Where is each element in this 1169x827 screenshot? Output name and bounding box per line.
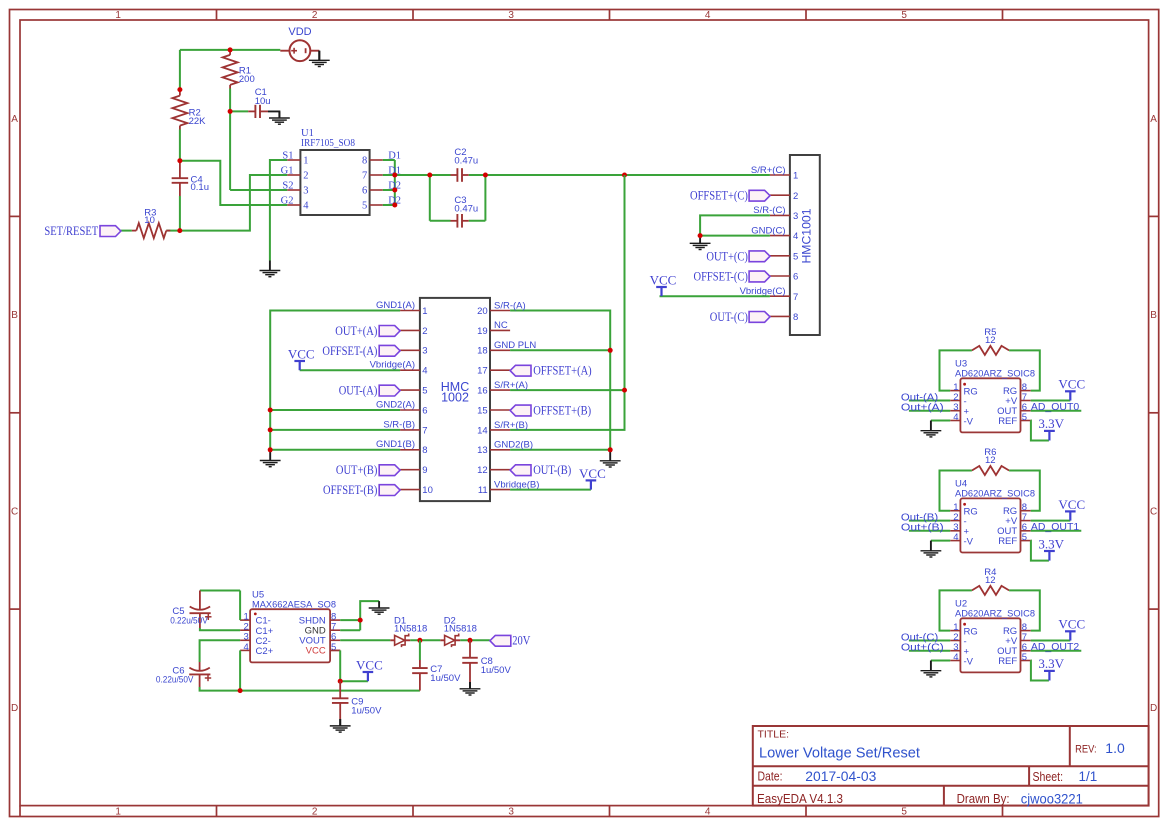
svg-text:12: 12 bbox=[985, 455, 996, 466]
svg-text:10u: 10u bbox=[255, 96, 271, 107]
svg-text:VCC: VCC bbox=[306, 646, 326, 657]
svg-text:VCC: VCC bbox=[288, 346, 315, 361]
svg-text:4: 4 bbox=[953, 532, 958, 543]
svg-text:2: 2 bbox=[312, 10, 318, 21]
svg-text:6: 6 bbox=[793, 272, 798, 283]
svg-text:OFFSET+(C): OFFSET+(C) bbox=[690, 189, 748, 203]
svg-text:4: 4 bbox=[953, 652, 958, 663]
svg-text:AD_OUT1: AD_OUT1 bbox=[1031, 521, 1079, 533]
svg-text:OFFSET+(A): OFFSET+(A) bbox=[533, 364, 592, 378]
svg-text:3.3V: 3.3V bbox=[1038, 536, 1064, 551]
svg-text:7: 7 bbox=[362, 171, 367, 182]
svg-text:S/R-(A): S/R-(A) bbox=[494, 300, 526, 311]
svg-text:4: 4 bbox=[422, 366, 427, 377]
svg-text:9: 9 bbox=[422, 465, 427, 476]
svg-text:3.3V: 3.3V bbox=[1038, 416, 1064, 431]
svg-text:6: 6 bbox=[422, 405, 427, 416]
svg-text:1: 1 bbox=[303, 156, 308, 167]
svg-text:12: 12 bbox=[985, 335, 996, 346]
svg-text:3: 3 bbox=[508, 10, 514, 21]
svg-text:19: 19 bbox=[477, 326, 488, 337]
svg-text:20V: 20V bbox=[512, 634, 530, 648]
svg-text:3: 3 bbox=[303, 186, 308, 197]
svg-text:Lower Voltage Set/Reset: Lower Voltage Set/Reset bbox=[759, 744, 921, 761]
svg-text:1u/50V: 1u/50V bbox=[351, 705, 382, 716]
svg-text:AD620ARZ_SOIC8: AD620ARZ_SOIC8 bbox=[955, 489, 1035, 500]
svg-text:OFFSET-(A): OFFSET-(A) bbox=[322, 344, 377, 358]
svg-text:cjwoo3221: cjwoo3221 bbox=[1021, 791, 1083, 806]
svg-text:OUT+(A): OUT+(A) bbox=[335, 324, 377, 338]
svg-text:8: 8 bbox=[362, 156, 367, 167]
svg-text:5: 5 bbox=[793, 251, 798, 262]
svg-text:1: 1 bbox=[793, 171, 798, 182]
svg-text:U1: U1 bbox=[301, 128, 314, 139]
svg-text:Drawn By:: Drawn By: bbox=[957, 792, 1010, 806]
svg-text:1N5818: 1N5818 bbox=[444, 624, 477, 635]
svg-text:4: 4 bbox=[303, 201, 309, 212]
svg-text:Vbridge(A): Vbridge(A) bbox=[370, 360, 415, 371]
svg-text:11: 11 bbox=[478, 485, 488, 496]
svg-text:C: C bbox=[1150, 507, 1157, 518]
svg-text:16: 16 bbox=[477, 386, 488, 397]
svg-text:D1: D1 bbox=[388, 150, 401, 161]
svg-text:AD_OUT0: AD_OUT0 bbox=[1031, 401, 1079, 413]
svg-text:2: 2 bbox=[312, 807, 318, 818]
svg-text:6: 6 bbox=[362, 186, 367, 197]
svg-text:OUT-(C): OUT-(C) bbox=[710, 310, 748, 324]
svg-text:GND2(A): GND2(A) bbox=[376, 399, 415, 410]
svg-text:IRF7105_SO8: IRF7105_SO8 bbox=[301, 138, 355, 149]
svg-text:0.47u: 0.47u bbox=[454, 204, 478, 215]
svg-text:OUT+(C): OUT+(C) bbox=[706, 249, 748, 263]
svg-text:1: 1 bbox=[115, 807, 121, 818]
svg-text:AD620ARZ_SOIC8: AD620ARZ_SOIC8 bbox=[955, 368, 1035, 379]
svg-text:1/1: 1/1 bbox=[1079, 769, 1098, 784]
svg-text:1: 1 bbox=[422, 306, 427, 317]
svg-text:7: 7 bbox=[422, 425, 427, 436]
svg-text:17: 17 bbox=[477, 366, 488, 377]
svg-text:OUT-(A): OUT-(A) bbox=[339, 384, 378, 398]
svg-text:AD_OUT2: AD_OUT2 bbox=[1031, 641, 1079, 653]
svg-text:-V: -V bbox=[964, 416, 974, 427]
svg-text:1N5818: 1N5818 bbox=[394, 624, 427, 635]
svg-text:4: 4 bbox=[705, 807, 711, 818]
svg-text:GND1(B): GND1(B) bbox=[376, 439, 415, 450]
svg-text:15: 15 bbox=[477, 405, 488, 416]
svg-text:OFFSET-(C): OFFSET-(C) bbox=[694, 270, 748, 284]
svg-text:HMC1001: HMC1001 bbox=[799, 208, 813, 263]
svg-text:1: 1 bbox=[115, 10, 121, 21]
svg-text:3: 3 bbox=[422, 346, 427, 357]
svg-text:B: B bbox=[11, 310, 18, 321]
svg-text:22K: 22K bbox=[189, 116, 207, 127]
svg-text:2017-04-03: 2017-04-03 bbox=[805, 769, 876, 784]
svg-text:3.3V: 3.3V bbox=[1038, 656, 1064, 671]
svg-text:5: 5 bbox=[1022, 532, 1027, 543]
svg-text:S/R+(C): S/R+(C) bbox=[751, 165, 786, 176]
svg-text:2: 2 bbox=[422, 326, 427, 337]
svg-text:Out+(C): Out+(C) bbox=[901, 642, 944, 654]
svg-text:0.22u/50V: 0.22u/50V bbox=[170, 615, 208, 626]
svg-text:-V: -V bbox=[964, 536, 974, 547]
svg-text:10: 10 bbox=[422, 485, 433, 496]
svg-text:VDD: VDD bbox=[288, 26, 311, 38]
svg-text:D: D bbox=[11, 703, 18, 714]
svg-text:4: 4 bbox=[705, 10, 711, 21]
svg-text:Out+(B): Out+(B) bbox=[901, 522, 944, 534]
svg-text:S/R+(A): S/R+(A) bbox=[494, 380, 528, 391]
svg-text:REF: REF bbox=[998, 416, 1017, 427]
svg-text:1u/50V: 1u/50V bbox=[430, 673, 461, 684]
svg-text:REF: REF bbox=[998, 536, 1017, 547]
svg-text:12: 12 bbox=[477, 465, 488, 476]
svg-text:VCC: VCC bbox=[1058, 497, 1085, 512]
svg-text:A: A bbox=[11, 114, 18, 125]
svg-text:20: 20 bbox=[477, 306, 488, 317]
svg-text:GND1(A): GND1(A) bbox=[376, 300, 415, 311]
svg-text:C: C bbox=[11, 507, 18, 518]
svg-text:2: 2 bbox=[793, 191, 798, 202]
svg-text:REF: REF bbox=[998, 656, 1017, 667]
svg-text:SET/RESET: SET/RESET bbox=[44, 224, 98, 238]
svg-text:B: B bbox=[1150, 310, 1157, 321]
svg-text:NC: NC bbox=[494, 320, 508, 331]
svg-text:VCC: VCC bbox=[1058, 617, 1085, 632]
svg-text:18: 18 bbox=[477, 346, 488, 357]
svg-text:A: A bbox=[1150, 114, 1157, 125]
svg-text:8: 8 bbox=[793, 312, 798, 323]
svg-text:7: 7 bbox=[793, 292, 798, 303]
svg-text:4: 4 bbox=[793, 231, 798, 242]
svg-text:8: 8 bbox=[422, 445, 427, 456]
svg-text:3: 3 bbox=[508, 807, 514, 818]
svg-text:VCC: VCC bbox=[579, 466, 606, 481]
svg-text:4: 4 bbox=[953, 412, 958, 423]
svg-text:OUT+(B): OUT+(B) bbox=[336, 463, 378, 477]
svg-text:VCC: VCC bbox=[650, 272, 677, 287]
svg-text:5: 5 bbox=[901, 807, 907, 818]
svg-text:TITLE:: TITLE: bbox=[758, 728, 790, 740]
svg-text:-V: -V bbox=[964, 656, 974, 667]
svg-text:1u/50V: 1u/50V bbox=[481, 665, 512, 676]
svg-text:VCC: VCC bbox=[356, 657, 383, 672]
svg-text:AD620ARZ_SOIC8: AD620ARZ_SOIC8 bbox=[955, 608, 1035, 619]
svg-text:3: 3 bbox=[793, 211, 798, 222]
svg-text:OFFSET+(B): OFFSET+(B) bbox=[533, 404, 591, 418]
svg-text:1002: 1002 bbox=[441, 390, 469, 404]
svg-text:S/R-(B): S/R-(B) bbox=[383, 419, 415, 430]
svg-text:12: 12 bbox=[985, 575, 996, 586]
svg-text:2: 2 bbox=[303, 171, 308, 182]
svg-text:5: 5 bbox=[1022, 412, 1027, 423]
svg-text:S/R+(B): S/R+(B) bbox=[494, 420, 528, 431]
svg-text:C2+: C2+ bbox=[256, 646, 274, 657]
svg-text:1.0: 1.0 bbox=[1105, 740, 1125, 756]
svg-text:VCC: VCC bbox=[1058, 377, 1085, 392]
svg-text:G2: G2 bbox=[281, 195, 294, 206]
svg-text:OFFSET-(B): OFFSET-(B) bbox=[323, 483, 377, 497]
svg-text:200: 200 bbox=[239, 74, 255, 85]
svg-text:S1: S1 bbox=[282, 150, 293, 161]
svg-text:5: 5 bbox=[362, 201, 367, 212]
svg-text:REV:: REV: bbox=[1075, 744, 1097, 756]
svg-text:0.22u/50V: 0.22u/50V bbox=[156, 674, 194, 685]
svg-text:OUT-(B): OUT-(B) bbox=[533, 463, 571, 477]
svg-text:GND PLN: GND PLN bbox=[494, 340, 536, 351]
svg-text:13: 13 bbox=[477, 445, 488, 456]
svg-text:10: 10 bbox=[144, 215, 155, 226]
svg-text:14: 14 bbox=[477, 425, 488, 436]
svg-text:0.1u: 0.1u bbox=[191, 182, 210, 193]
svg-text:Out+(A): Out+(A) bbox=[901, 402, 944, 414]
svg-text:S2: S2 bbox=[282, 180, 293, 191]
svg-text:GND2(B): GND2(B) bbox=[494, 440, 533, 451]
svg-text:5: 5 bbox=[1022, 652, 1027, 663]
svg-text:EasyEDA V4.1.3: EasyEDA V4.1.3 bbox=[757, 792, 843, 806]
svg-text:MAX662AESA_SO8: MAX662AESA_SO8 bbox=[252, 600, 336, 611]
svg-text:0.47u: 0.47u bbox=[454, 156, 478, 167]
svg-text:D: D bbox=[1150, 703, 1157, 714]
svg-text:G1: G1 bbox=[281, 165, 294, 176]
svg-text:5: 5 bbox=[422, 386, 427, 397]
svg-text:Date:: Date: bbox=[758, 770, 783, 784]
svg-text:4: 4 bbox=[244, 642, 249, 653]
svg-text:5: 5 bbox=[901, 10, 907, 21]
svg-text:Sheet:: Sheet: bbox=[1033, 770, 1064, 784]
